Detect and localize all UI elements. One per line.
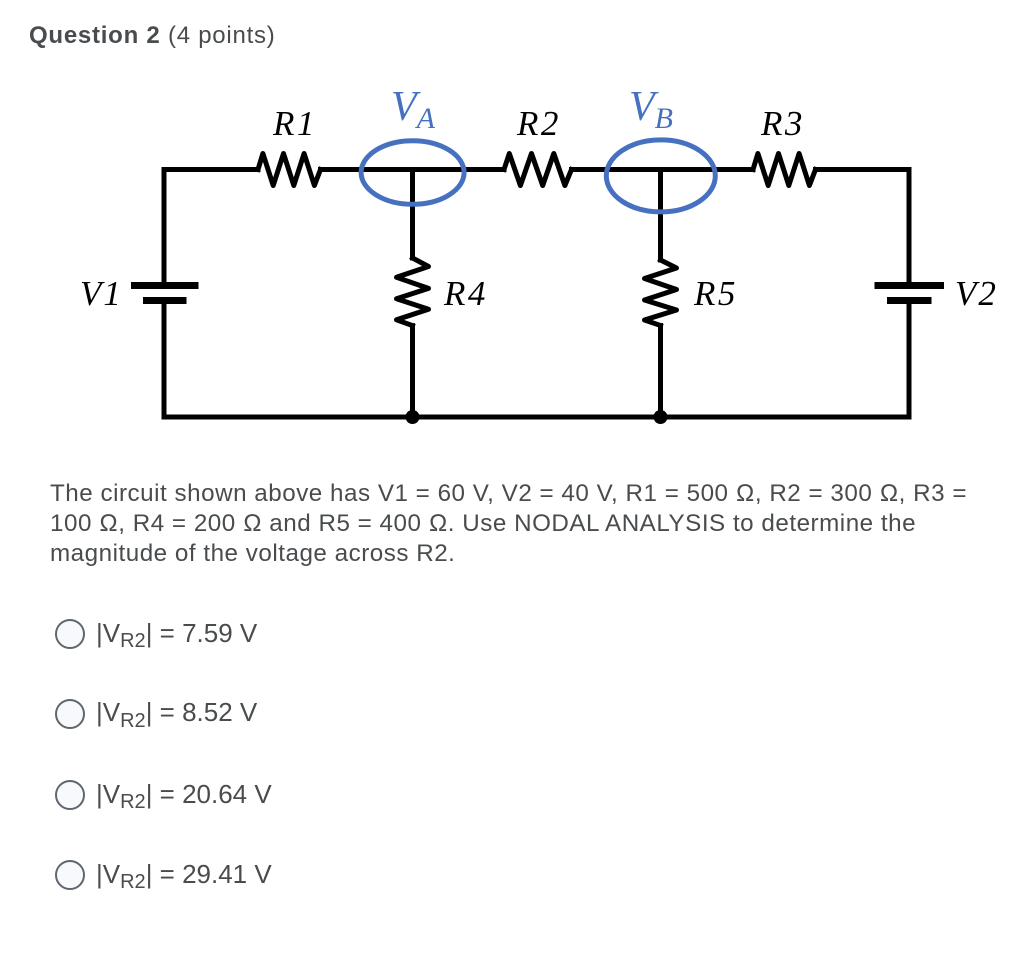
answer option 3 xyxy=(55,780,272,810)
svg-text:VA: VA xyxy=(391,84,436,135)
wire bottom xyxy=(164,415,909,420)
wire top right segment xyxy=(816,167,910,172)
question text xyxy=(50,479,967,569)
wire top between R1 and R2 xyxy=(321,167,505,172)
battery V1 xyxy=(131,286,199,301)
svg-text:R5: R5 xyxy=(693,274,738,313)
wire top between R2 and R3 xyxy=(572,167,754,172)
svg-text:VB: VB xyxy=(629,84,673,135)
resistor R3 xyxy=(753,154,816,186)
wire right vertical upper xyxy=(907,170,912,282)
node VA branch wire upper xyxy=(410,170,415,259)
node ellipse VB xyxy=(606,140,715,212)
wire left vertical upper xyxy=(162,170,167,282)
node ellipse VA xyxy=(361,141,464,205)
svg-text:R4: R4 xyxy=(443,274,488,313)
junction dot right xyxy=(654,410,668,424)
svg-text:R2: R2 xyxy=(516,104,561,143)
question title xyxy=(29,22,276,50)
circuit schematic xyxy=(0,0,1032,470)
node VB branch wire upper xyxy=(658,170,663,261)
node VA branch wire lower xyxy=(410,326,415,417)
wire top left segment xyxy=(164,167,258,172)
resistor R1 xyxy=(258,154,321,186)
node VB branch wire lower xyxy=(658,326,663,418)
svg-text:V1: V1 xyxy=(80,274,123,313)
junction dot left xyxy=(406,410,420,424)
answer option 2 xyxy=(55,699,257,729)
wire left vertical lower xyxy=(162,304,167,417)
svg-text:V2: V2 xyxy=(955,274,998,313)
answer option 1 xyxy=(55,619,257,649)
resistor R4 xyxy=(397,258,429,326)
svg-text:R1: R1 xyxy=(272,104,317,143)
battery V2 xyxy=(875,286,945,301)
resistor R2 xyxy=(504,154,572,186)
resistor R5 xyxy=(645,260,677,326)
answer option 4 xyxy=(55,860,272,890)
wire right vertical lower xyxy=(907,304,912,417)
svg-text:R3: R3 xyxy=(760,104,805,143)
